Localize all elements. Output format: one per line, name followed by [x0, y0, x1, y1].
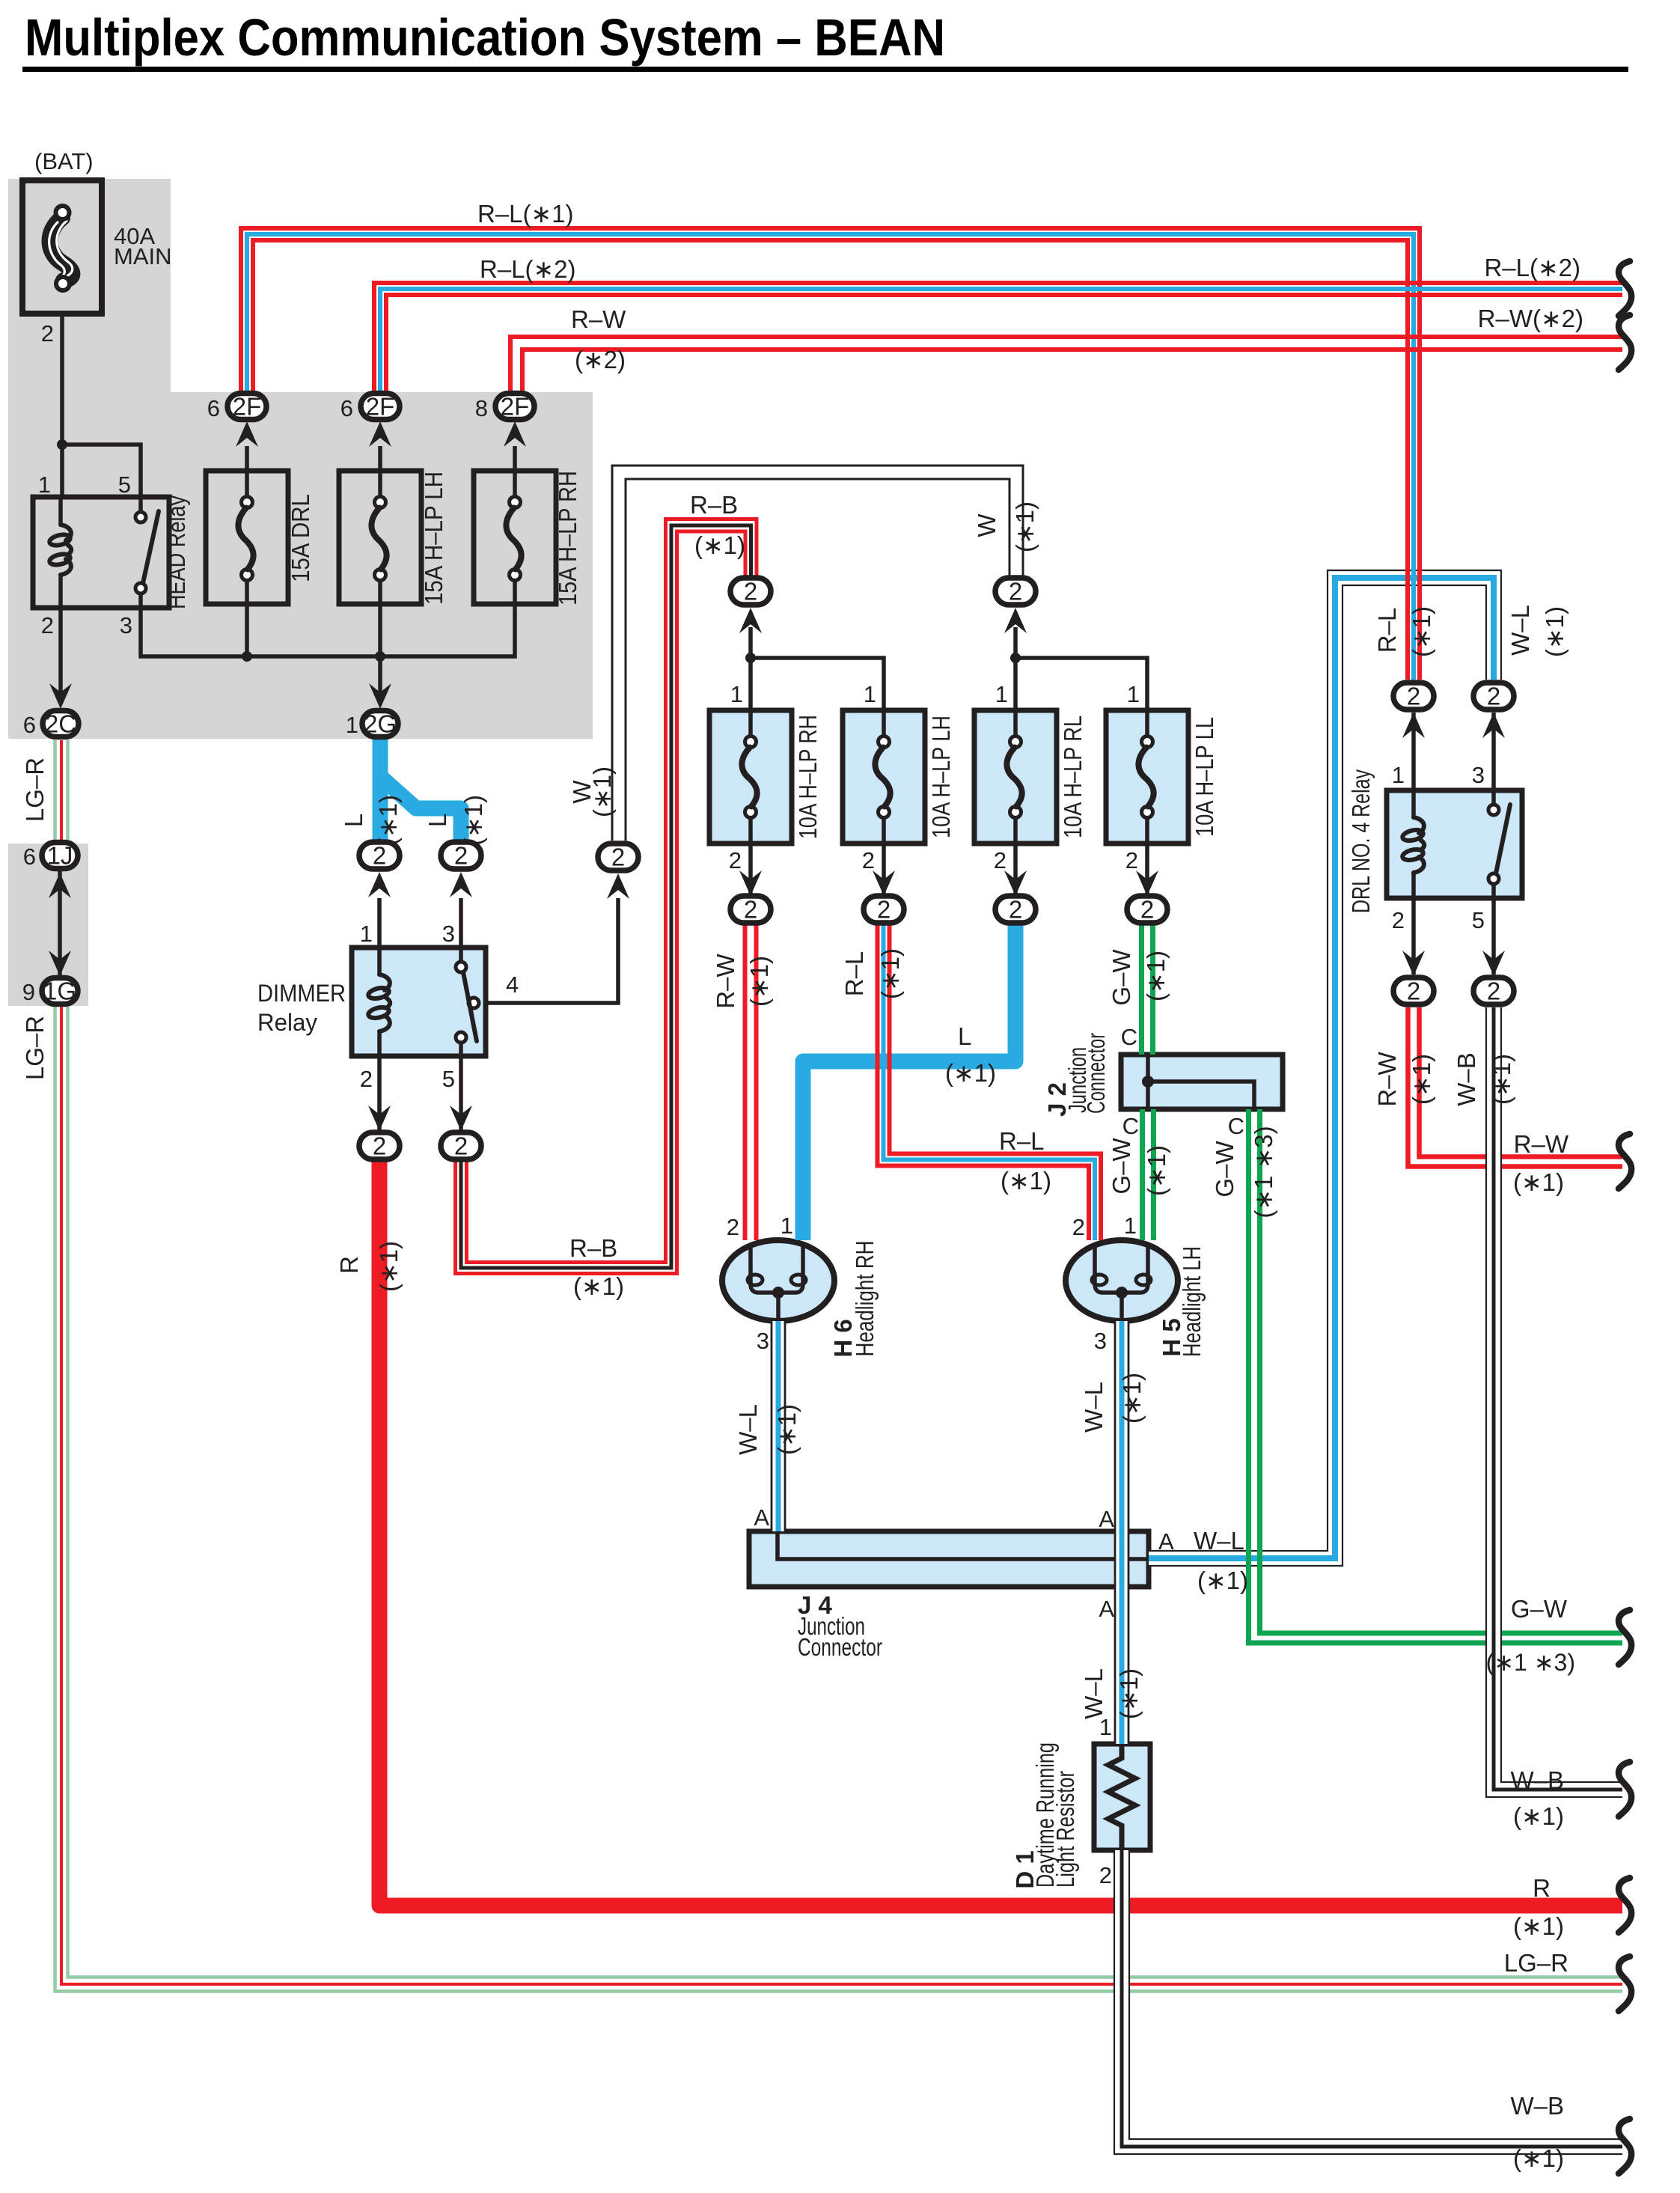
svg-text:HEAD Relay: HEAD Relay: [162, 495, 190, 609]
connector 2C pin 6: [49, 683, 72, 709]
svg-text:(∗1 ∗3): (∗1 ∗3): [1486, 1649, 1575, 1676]
fuse symbol 10A H-LP RH: [748, 710, 753, 736]
svg-text:R–W: R–W: [1514, 1130, 1569, 1158]
wire DRL relay pin3 to oval: [1491, 713, 1496, 790]
fuse box 15A DRL: [206, 471, 288, 604]
oval connector above dimmer pin3: [450, 872, 472, 897]
svg-text:2: 2: [1009, 896, 1022, 924]
svg-text:LG–R: LG–R: [21, 757, 49, 822]
svg-text:2: 2: [1125, 847, 1138, 873]
svg-text:G–W: G–W: [1211, 1141, 1238, 1198]
svg-text:L: L: [424, 814, 451, 827]
svg-text:2: 2: [1099, 1862, 1112, 1888]
wire R-W 10A H-LP RH to Headlight RH pin2: [743, 924, 748, 1240]
HEAD Relay switch: [138, 497, 143, 512]
oval connector below 10A H-LP LH: [873, 870, 895, 896]
svg-text:A: A: [1099, 1596, 1114, 1622]
svg-text:L: L: [340, 814, 367, 827]
fuse symbol 15A H-LP RH: [513, 471, 517, 497]
svg-text:3: 3: [120, 612, 132, 638]
bus to 10A H-LP LL fuse: [1015, 658, 1147, 710]
svg-text:1: 1: [864, 681, 876, 707]
J4 internal bus: [778, 1531, 1149, 1559]
svg-text:(∗1): (∗1): [1408, 1054, 1435, 1105]
svg-text:R: R: [1533, 1874, 1551, 1902]
wire HEAD relay pin 2 to connector 2C: [58, 608, 63, 692]
svg-text:2: 2: [1009, 578, 1022, 606]
svg-text:1G: 1G: [43, 977, 76, 1005]
fuse symbol 10A H-LP LH: [882, 710, 886, 736]
svg-text:(∗1): (∗1): [573, 1272, 624, 1300]
fuse box 10A H-LP RL: [974, 710, 1057, 844]
svg-text:MAIN: MAIN: [114, 243, 172, 269]
svg-text:Light Resistor: Light Resistor: [1051, 1771, 1079, 1888]
oval connector W to dimmer pin4: [607, 873, 629, 899]
svg-text:1: 1: [1127, 681, 1140, 707]
svg-text:(∗1): (∗1): [1115, 1668, 1143, 1719]
wire junction to HEAD relay pin 5: [62, 445, 141, 497]
oval connector above dimmer pin1: [368, 872, 391, 897]
fuse box 15A H-LP RH: [474, 471, 556, 604]
fuse bus to 2G: [247, 604, 515, 656]
svg-text:C: C: [1228, 1113, 1244, 1139]
wire R-W DRL relay pin2 to right edge: [1408, 1007, 1623, 1167]
DRL NO. 4 Relay coil: [1411, 790, 1416, 817]
wire LG-R connector 2C to 1J: [53, 740, 57, 840]
HEAD Relay coil: [58, 497, 63, 525]
svg-text:(∗1): (∗1): [1142, 951, 1170, 1001]
J2 Junction Connector box: [1121, 1055, 1283, 1109]
junction dot above 10A H-LP RH: [745, 653, 756, 663]
svg-text:1: 1: [38, 472, 51, 498]
svg-text:2: 2: [744, 578, 757, 606]
continuation brace W-B lower: [1619, 2119, 1631, 2174]
svg-text:(∗1): (∗1): [1118, 1373, 1146, 1424]
wire W-B DRL relay pin5 to right edge: [1494, 1007, 1622, 1790]
connector 1J pin 6: [42, 843, 78, 869]
oval connector above DRL relay pin1: [1402, 713, 1425, 738]
wire LG-R connector 1G to right edge: [55, 1007, 1623, 1992]
wire dimmer pin3 to oval: [459, 898, 463, 948]
wire R thick red dimmer pin2 to right edge: [379, 1162, 1622, 1906]
svg-text:W–B: W–B: [1453, 1052, 1480, 1106]
svg-text:LG–R: LG–R: [21, 1016, 49, 1080]
svg-text:R–W(∗2): R–W(∗2): [1478, 305, 1583, 332]
wire 15A H-LP LH fuse bottom to bus: [378, 604, 382, 656]
svg-text:2F: 2F: [501, 393, 530, 421]
H6 filament symbols: [751, 1244, 803, 1293]
svg-text:2: 2: [1487, 977, 1500, 1005]
wire W-B D1 resistor pin2 to right edge: [1122, 1850, 1622, 2147]
svg-text:W–L: W–L: [1506, 605, 1534, 656]
svg-text:2F: 2F: [366, 393, 395, 421]
HEAD Relay box: [33, 497, 169, 608]
svg-text:9: 9: [22, 979, 35, 1005]
svg-text:(∗1): (∗1): [876, 948, 904, 999]
svg-text:2: 2: [727, 1214, 739, 1240]
fuse symbol 10A H-LP LL: [1145, 710, 1149, 736]
oval connector below 10A H-LP RL: [1004, 870, 1027, 896]
svg-text:R–W: R–W: [571, 305, 626, 333]
gray background around connectors 1J/1G: [8, 844, 88, 1006]
svg-text:6: 6: [340, 395, 353, 421]
fuse symbol 10A H-LP RL: [1013, 710, 1018, 736]
svg-text:2: 2: [611, 844, 625, 871]
svg-text:1: 1: [1099, 1714, 1112, 1740]
svg-text:DIMMER: DIMMER: [257, 980, 346, 1007]
svg-text:10A H–LP RH: 10A H–LP RH: [794, 715, 822, 839]
oval connector below 10A H-LP RH: [739, 870, 762, 896]
svg-text:2: 2: [1407, 977, 1420, 1005]
wire W dimmer pin4 connector to 10A fuses oval: [619, 472, 1016, 841]
svg-text:10A H–LP LL: 10A H–LP LL: [1191, 717, 1218, 837]
svg-text:R: R: [335, 1256, 363, 1274]
oval connector above DRL relay pin3: [1482, 713, 1505, 738]
wire 10A H-LP LH fuse to oval: [882, 844, 886, 895]
svg-text:C: C: [1122, 1113, 1139, 1139]
svg-text:(∗1): (∗1): [588, 766, 616, 817]
gray relay-block background (wide band): [8, 392, 593, 739]
svg-text:1: 1: [346, 712, 358, 738]
wire W-L J4 to DRL relay pin3 oval: [1149, 578, 1494, 1558]
oval connector above 10A H-LP RL: [1004, 608, 1027, 633]
svg-text:2: 2: [1392, 907, 1405, 933]
svg-text:3: 3: [757, 1328, 769, 1354]
svg-text:R–L(∗2): R–L(∗2): [1484, 254, 1580, 281]
svg-text:(∗1): (∗1): [1011, 501, 1039, 552]
svg-text:(∗1): (∗1): [1513, 1912, 1564, 1940]
connector 1G pin 9: [49, 951, 71, 976]
fuse symbol 15A DRL: [245, 471, 249, 497]
H5 filament symbols: [1095, 1244, 1148, 1293]
svg-text:(∗1): (∗1): [694, 531, 745, 559]
svg-text:2: 2: [1487, 683, 1500, 710]
wire DRL relay pin2 down: [1411, 898, 1416, 975]
wire R-W(*2) 2F to right edge: [510, 337, 1622, 393]
wire DRL relay pin5 down: [1491, 898, 1496, 975]
svg-text:2: 2: [360, 1066, 373, 1092]
wire L thick blue 10A H-LP RL to Headlight RH pin1: [803, 924, 1015, 1240]
svg-text:A: A: [754, 1504, 769, 1531]
wire W-L Headlight LH pin3 through J4 to D1 resistor: [1115, 1321, 1129, 1744]
J2 internal bus: [1146, 1055, 1150, 1109]
svg-text:2: 2: [994, 847, 1007, 873]
svg-text:2: 2: [1072, 1214, 1085, 1240]
svg-text:(BAT): (BAT): [34, 148, 94, 174]
svg-text:(∗2): (∗2): [575, 346, 626, 373]
wire 2F to 15A DRL fuse: [245, 446, 249, 471]
D1 Daytime Running Light Resistor box: [1094, 1744, 1150, 1850]
svg-text:W–L: W–L: [1194, 1527, 1244, 1555]
wire 2F to 15A H-LP RH fuse: [513, 446, 517, 471]
svg-text:3: 3: [442, 921, 455, 947]
svg-text:R–L: R–L: [999, 1127, 1045, 1155]
svg-text:(∗1): (∗1): [1513, 1168, 1564, 1196]
bus to 10A H-LP LH fuse: [751, 658, 884, 710]
svg-text:1: 1: [781, 1213, 793, 1239]
junction dot fuse bus DRL: [242, 651, 252, 662]
svg-text:2: 2: [729, 847, 742, 873]
fusible link box 40A MAIN: [22, 180, 102, 314]
svg-text:2: 2: [41, 320, 54, 347]
continuation brace G-W(*1 *3): [1619, 1610, 1631, 1665]
svg-text:1: 1: [995, 681, 1008, 707]
svg-text:(∗1): (∗1): [1197, 1567, 1248, 1594]
svg-text:1: 1: [1124, 1213, 1137, 1239]
DIMMER Relay coil: [377, 948, 382, 975]
svg-text:A: A: [1099, 1506, 1114, 1532]
svg-text:(∗1): (∗1): [1513, 1802, 1564, 1830]
wire G-W J2 to right edge: [1249, 1109, 1623, 1643]
connector 2F pin 6 (H-LP LH): [369, 421, 391, 447]
wire R-L 10A H-LP LH to Headlight LH pin2: [878, 924, 1090, 1240]
svg-text:R–L: R–L: [840, 951, 868, 997]
fuse box 10A H-LP RH: [709, 710, 792, 844]
Headlight RH connector body H6: [722, 1240, 834, 1321]
svg-text:2: 2: [1140, 896, 1154, 924]
title underline rule: [22, 67, 1628, 72]
svg-text:A: A: [1158, 1528, 1174, 1555]
svg-text:(∗1): (∗1): [1001, 1167, 1051, 1195]
svg-text:2G: 2G: [364, 710, 397, 738]
svg-text:(∗1): (∗1): [1541, 606, 1568, 657]
oval connector below DRL relay pin2: [1402, 951, 1425, 976]
svg-text:R–B: R–B: [690, 491, 738, 519]
wire 2F to 15A H-LP LH fuse: [378, 446, 382, 471]
svg-text:(∗1): (∗1): [1488, 1054, 1515, 1105]
svg-text:R–L(∗1): R–L(∗1): [477, 200, 574, 228]
continuation brace R-W(*2): [1619, 315, 1631, 370]
wire HEAD relay pin 3 to fuse bus: [141, 608, 247, 656]
svg-text:(∗1): (∗1): [1408, 606, 1435, 657]
svg-text:(∗1): (∗1): [945, 1059, 996, 1087]
wire dimmer pin1 to oval: [377, 898, 382, 948]
svg-text:(∗1): (∗1): [1513, 2144, 1564, 2172]
fuse symbol 15A H-LP LH: [378, 471, 382, 497]
svg-text:2: 2: [41, 612, 54, 638]
gray relay-block background (top-left strip): [8, 179, 171, 396]
svg-text:(∗1): (∗1): [773, 1404, 801, 1455]
wire R-L(*2) 2F to right edge: [374, 283, 1622, 393]
wire R-B dimmer pin5 to 10A fuses oval: [456, 531, 746, 1274]
fuse box 10A H-LP LL: [1106, 710, 1188, 844]
svg-text:W–L: W–L: [1080, 1382, 1108, 1433]
svg-text:W–B: W–B: [1510, 2092, 1564, 2120]
svg-text:(∗1): (∗1): [375, 1241, 403, 1292]
svg-text:10A H–LP LH: 10A H–LP LH: [927, 716, 955, 838]
wire G-W 10A H-LP LL to J2: [1139, 924, 1144, 1055]
wire oval to junction above 10A H-LP RL: [1013, 627, 1018, 710]
wire oval to junction above 10A H-LP RH: [748, 627, 753, 710]
wire 10A H-LP RH fuse to oval: [748, 844, 753, 895]
wire 10A H-LP RL fuse to oval: [1013, 844, 1018, 895]
svg-text:1: 1: [1392, 762, 1405, 788]
junction dot below 40A MAIN: [57, 439, 67, 450]
continuation brace R: [1619, 1878, 1631, 1933]
svg-text:W–L: W–L: [1080, 1668, 1108, 1719]
J4 Junction Connector box: [749, 1531, 1149, 1587]
svg-text:DRL NO. 4 Relay: DRL NO. 4 Relay: [1347, 769, 1375, 913]
svg-text:R–W: R–W: [712, 953, 739, 1008]
DIMMER Relay pin 4 wire to connector: [486, 898, 618, 1003]
svg-text:L: L: [958, 1022, 971, 1050]
wire G-W J2 to Headlight LH pin1: [1140, 1109, 1145, 1240]
oval connector below DRL relay pin5: [1482, 951, 1505, 976]
continuation brace LG-R: [1619, 1956, 1631, 2011]
wire 15A DRL fuse bottom to bus: [245, 604, 249, 656]
junction dot fuse bus 2G: [375, 651, 385, 662]
svg-text:G–W: G–W: [1108, 1138, 1135, 1195]
svg-text:(∗1 ∗3): (∗1 ∗3): [1250, 1126, 1277, 1218]
wire dimmer pin2 down: [377, 1056, 382, 1130]
DRL NO. 4 Relay box: [1387, 790, 1522, 898]
svg-text:2: 2: [862, 847, 875, 873]
continuation brace W-B upper: [1619, 1762, 1631, 1817]
svg-text:G–W: G–W: [1511, 1595, 1568, 1623]
wire battery to junction: [60, 313, 64, 497]
svg-text:1: 1: [360, 921, 373, 947]
svg-text:15A H–LP LH: 15A H–LP LH: [420, 472, 448, 605]
wire 10A H-LP LL fuse to oval: [1145, 844, 1149, 895]
svg-text:Headlight RH: Headlight RH: [851, 1241, 879, 1357]
svg-text:5: 5: [1472, 907, 1485, 933]
DIMMER Relay switch: [459, 948, 463, 963]
svg-text:Headlight LH: Headlight LH: [1178, 1246, 1206, 1357]
svg-text:LG–R: LG–R: [1504, 1949, 1568, 1977]
svg-text:6: 6: [23, 844, 36, 870]
wire R-L(*1) 2F to DRL relay pin1 oval: [241, 228, 1420, 680]
svg-text:2F: 2F: [233, 393, 262, 421]
connector 2F pin 8 (H-LP RH): [504, 421, 526, 447]
svg-text:15A H–LP RH: 15A H–LP RH: [554, 471, 581, 606]
svg-text:Connector: Connector: [1082, 1033, 1110, 1114]
svg-text:8: 8: [475, 395, 488, 421]
DIMMER Relay box: [352, 948, 486, 1056]
svg-text:R–L(∗2): R–L(∗2): [480, 255, 576, 283]
svg-text:(∗1): (∗1): [745, 956, 773, 1007]
connector 2G pin 1: [369, 683, 391, 709]
svg-text:15A DRL: 15A DRL: [287, 494, 314, 582]
svg-text:W: W: [973, 513, 1001, 537]
continuation brace R-L(*2): [1619, 261, 1631, 316]
DRL NO. 4 Relay switch: [1491, 790, 1496, 805]
oval connector below dimmer pin5: [450, 1105, 472, 1131]
svg-text:R–W: R–W: [1373, 1051, 1401, 1106]
continuation brace R-W(*1): [1619, 1134, 1631, 1189]
svg-text:2: 2: [373, 1132, 386, 1160]
svg-text:6: 6: [207, 395, 220, 421]
svg-text:5: 5: [118, 472, 131, 498]
svg-text:3: 3: [1472, 762, 1485, 788]
wire dimmer pin5 down: [459, 1056, 463, 1130]
D1 resistor element: [1108, 1744, 1135, 1850]
svg-text:(∗1): (∗1): [459, 795, 487, 846]
svg-text:2: 2: [1407, 683, 1420, 710]
oval connector below 10A H-LP LL: [1136, 870, 1158, 896]
svg-text:2C: 2C: [45, 710, 76, 738]
svg-text:1J: 1J: [47, 842, 73, 870]
svg-text:W–L: W–L: [734, 1404, 762, 1455]
svg-text:(∗1): (∗1): [374, 795, 402, 846]
fuse box 15A H-LP LH: [339, 471, 421, 604]
oval connector above 10A H-LP RH: [739, 608, 762, 633]
svg-text:2: 2: [877, 896, 891, 924]
svg-text:Connector: Connector: [798, 1633, 882, 1661]
svg-text:10A H–LP RL: 10A H–LP RL: [1059, 716, 1087, 838]
svg-text:2: 2: [454, 1132, 468, 1160]
fusible link symbol 40A MAIN: [49, 218, 72, 281]
svg-text:R–B: R–B: [569, 1234, 617, 1262]
wire connector 1J to 1G: [58, 871, 62, 975]
svg-text:4: 4: [506, 972, 519, 998]
oval connector below dimmer pin2: [368, 1105, 391, 1131]
svg-text:5: 5: [442, 1066, 455, 1092]
connector 2F pin 6 (DRL): [236, 421, 258, 447]
junction dot above 10A H-LP RL: [1010, 653, 1021, 663]
wire L thick blue 2G to dimmer ovals: [373, 739, 388, 840]
svg-text:2: 2: [744, 896, 757, 924]
svg-text:W–B: W–B: [1510, 1766, 1564, 1794]
Headlight LH connector body H5: [1066, 1240, 1178, 1321]
wire DRL relay pin1 to oval: [1411, 713, 1416, 790]
svg-text:6: 6: [23, 712, 36, 738]
svg-text:3: 3: [1094, 1328, 1107, 1354]
svg-text:Relay: Relay: [257, 1009, 317, 1036]
svg-text:Multiplex Communication System: Multiplex Communication System – BEAN: [25, 8, 945, 67]
svg-text:C: C: [1121, 1024, 1137, 1050]
svg-text:R–L: R–L: [1373, 608, 1401, 653]
svg-text:G–W: G–W: [1108, 949, 1135, 1006]
svg-text:(∗1): (∗1): [1143, 1145, 1170, 1196]
wire W-L Headlight RH pin3 to J4: [772, 1321, 786, 1531]
svg-text:1: 1: [730, 681, 743, 707]
wire bus to connector 2G: [378, 656, 382, 692]
fuse box 10A H-LP LH: [843, 710, 925, 844]
